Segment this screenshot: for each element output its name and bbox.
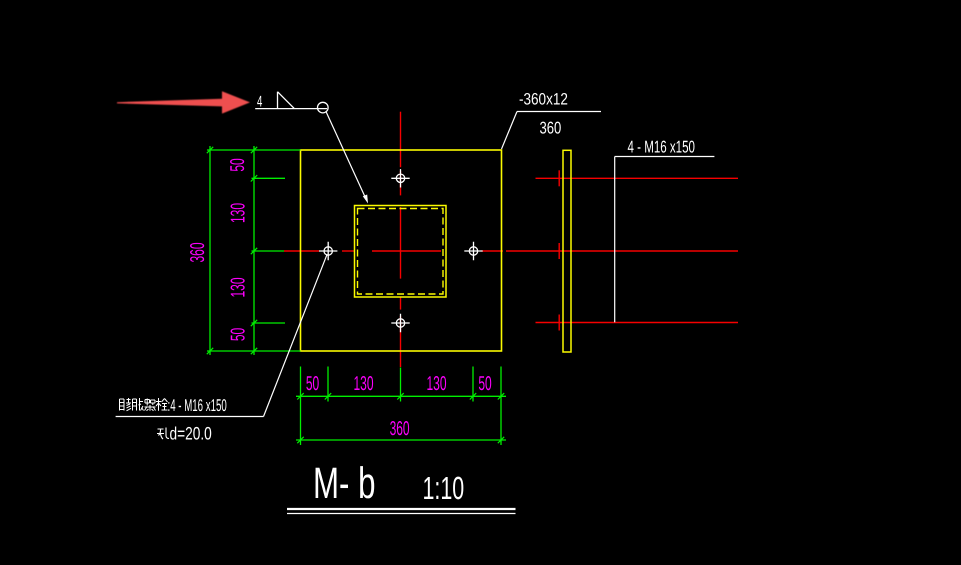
svg-text:1:10: 1:10 — [423, 470, 465, 506]
hole label chinese 孔 — [157, 428, 169, 440]
weld symbol all-around circle — [318, 102, 329, 113]
svg-text:50: 50 — [227, 158, 249, 171]
bolt right (main view) — [464, 242, 482, 260]
anchor bolt label chinese 胀 — [133, 398, 144, 411]
red tick marks on side-view bolt centerline x=559 — [558, 170, 560, 330]
bottom dimension line row1 (y=396.3) — [296, 395, 506, 397]
plate outline (main view, 360x360) — [301, 150, 502, 351]
title underline thick — [287, 508, 516, 510]
left dimension: extension line mid (y=251) — [252, 250, 285, 252]
label 4-M16x150 leader vertical — [614, 157, 616, 323]
svg-text:50: 50 — [306, 373, 319, 395]
svg-text:360: 360 — [187, 242, 209, 262]
bolt bottom (main view) — [391, 314, 409, 332]
svg-text:130: 130 — [227, 203, 249, 223]
red bolt row top (side view, y=178.3) — [536, 177, 739, 179]
svg-text:360: 360 — [390, 418, 410, 440]
red centerline vertical (main view, x=400.5) — [400, 112, 402, 367]
left dimension: extension line bottom (y=351) — [207, 350, 301, 352]
anchor bolt label chinese 膨 — [120, 398, 132, 411]
annotation arrow (red highlight) — [117, 91, 250, 113]
svg-text:130: 130 — [426, 373, 446, 395]
left dimension: extension line top (y=150) — [207, 146, 301, 355]
title underline thin — [287, 513, 516, 515]
bottom dimension extension lines — [296, 367, 506, 446]
bolt left (main view) — [319, 242, 337, 260]
left dimension oblique ticks — [207, 147, 257, 354]
svg-text:M- b: M- b — [313, 459, 375, 508]
svg-text:50: 50 — [478, 373, 491, 395]
weld leader line with arrowhead to tube corner — [326, 112, 366, 199]
left dimension: extension line at 130 (y=323) — [252, 322, 286, 324]
column tube outline solid (inner square) — [355, 206, 447, 298]
label -360x12 leader to plate corner — [502, 112, 518, 150]
side view plate outline (-360x12) — [563, 150, 571, 352]
svg-text::4 - M16 x150: :4 - M16 x150 — [168, 396, 227, 415]
red bolt row bottom (side view, y=322.5) — [536, 322, 739, 324]
label 4-M16x150 underline — [615, 156, 715, 158]
svg-text:130: 130 — [353, 373, 373, 395]
left dimension line inner (x=254) — [253, 146, 255, 355]
weld symbol fillet triangle — [278, 92, 295, 109]
bolt top (main view) — [391, 169, 409, 187]
weld symbol reference line — [255, 108, 327, 110]
svg-text:130: 130 — [227, 277, 249, 297]
bottom dimension oblique ticks — [297, 393, 504, 443]
label -360x12 underline — [517, 111, 601, 113]
anchor bolt label underline — [116, 416, 264, 418]
anchor bolt label chinese 栓 — [156, 398, 168, 411]
column tube inner dashed square — [358, 209, 444, 295]
bottom dimension line row2 360 (y=440) — [296, 439, 506, 441]
red centerline horizontal (main view, y=251) — [284, 250, 738, 252]
left dimension: extension line at 50 (y=178.3) — [252, 177, 286, 179]
svg-text:360: 360 — [540, 119, 562, 138]
left dimension line outer 360 (x=210) — [209, 146, 211, 355]
svg-text:4 - M16 x150: 4 - M16 x150 — [628, 138, 695, 157]
anchor bolt label leader (to left bolt) — [264, 254, 328, 416]
svg-text:d=20.0: d=20.0 — [170, 424, 212, 444]
anchor bolt label chinese 螺 — [145, 399, 156, 411]
svg-text:50: 50 — [227, 328, 249, 341]
svg-text:-360x12: -360x12 — [519, 91, 568, 109]
